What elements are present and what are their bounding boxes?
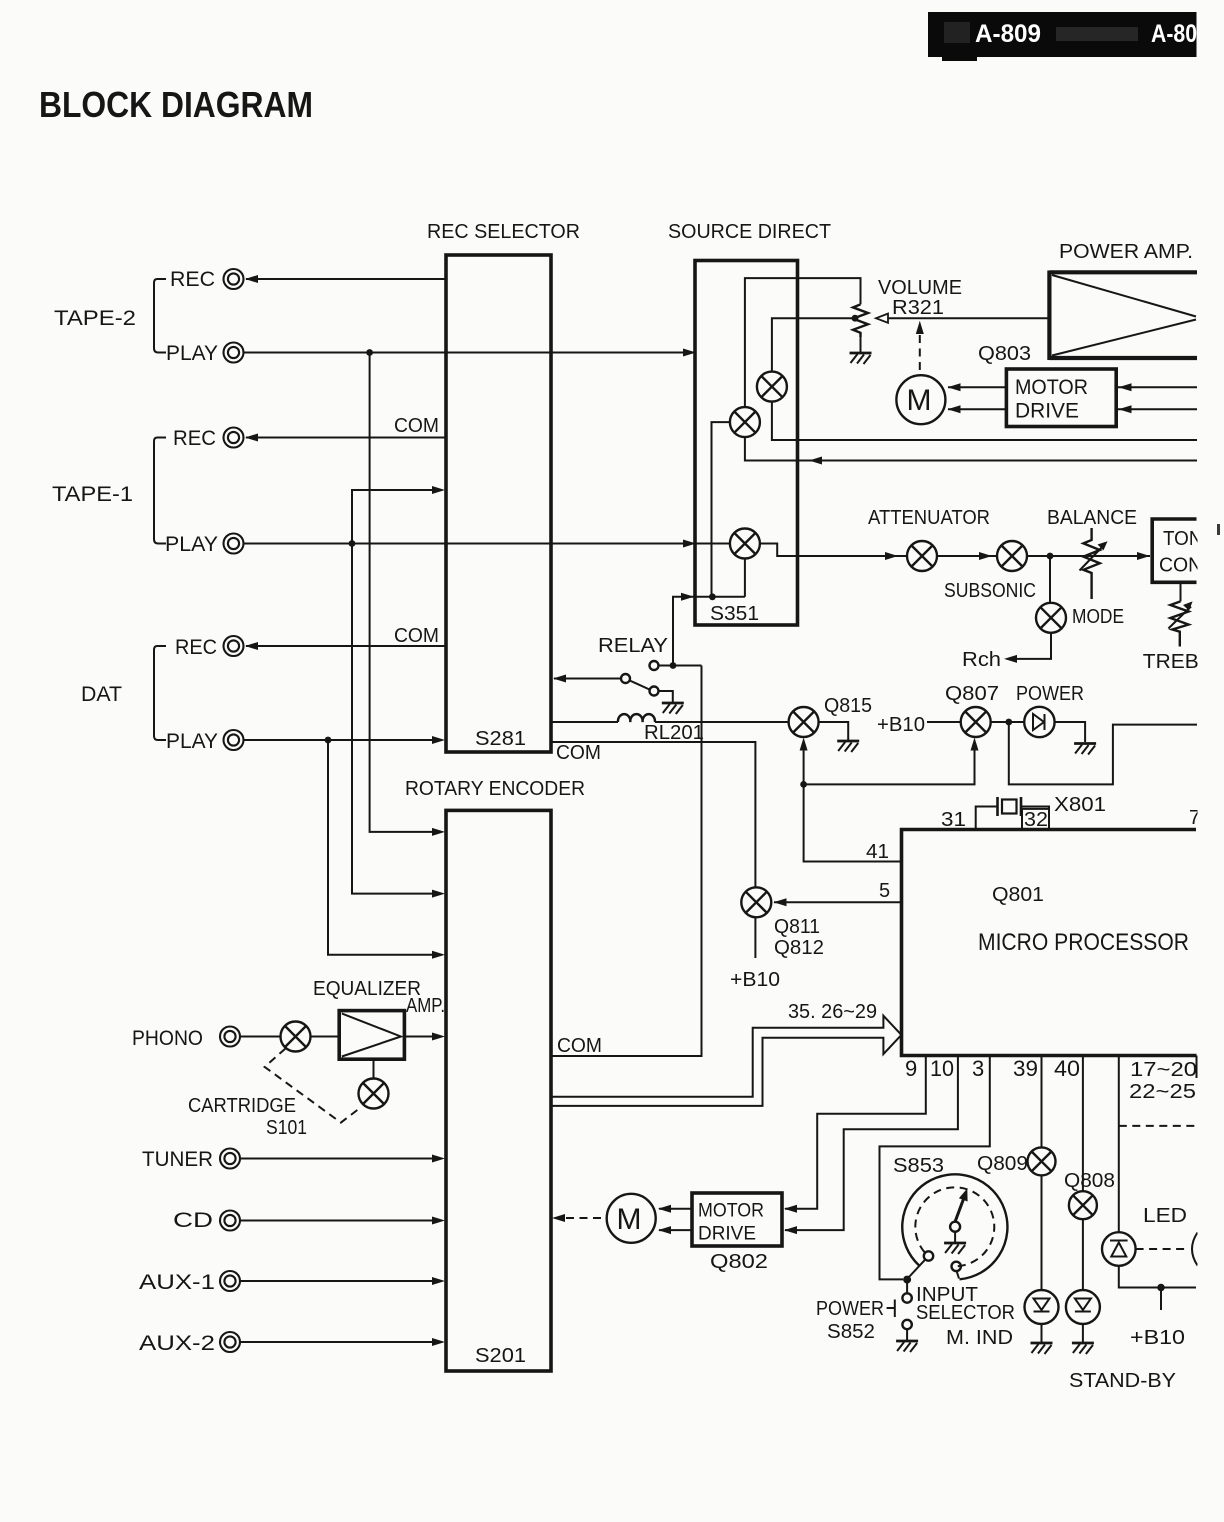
rotary switch S853 outer ring bbox=[902, 1174, 1007, 1279]
svg-text:MICRO PROCESSOR: MICRO PROCESSOR bbox=[978, 929, 1189, 956]
switch Q809 bbox=[1028, 1147, 1056, 1175]
svg-text:TAPE-1: TAPE-1 bbox=[52, 483, 133, 506]
push button S852 bbox=[887, 1300, 895, 1318]
relay contact middle bbox=[621, 674, 630, 683]
svg-text:Q802: Q802 bbox=[710, 1251, 768, 1273]
wires motor drive Q802 to motor bbox=[659, 1209, 692, 1230]
indicator diode (STAND-BY) bbox=[1066, 1290, 1100, 1324]
jack TAPE-2 REC bbox=[224, 269, 244, 289]
svg-text:TUNER: TUNER bbox=[142, 1148, 213, 1171]
svg-text:COM: COM bbox=[556, 742, 601, 764]
crystal X801 bbox=[976, 807, 997, 830]
ground (Q808 chain) bbox=[1072, 1343, 1094, 1354]
wire SD1 to long feed line bbox=[772, 402, 1197, 440]
switch S852 contact lower bbox=[902, 1320, 911, 1329]
potentiometer R321 bbox=[853, 304, 868, 337]
wire junction down to power switch bbox=[906, 1280, 908, 1294]
wire pin 3 staircase to selector junction bbox=[880, 1056, 990, 1280]
wire TAPE-2 REC bbox=[246, 278, 446, 280]
svg-text:COM: COM bbox=[394, 415, 439, 437]
wire DAT PLAY into S281 bbox=[244, 739, 432, 741]
arrowhead toward Rch bbox=[1004, 655, 1017, 663]
LED display diode bbox=[1102, 1232, 1136, 1266]
wire TUNER to S201 bbox=[241, 1158, 433, 1160]
scan speck right margin bbox=[1217, 524, 1220, 535]
svg-text:REC SELECTOR: REC SELECTOR bbox=[427, 221, 580, 243]
svg-text:S281: S281 bbox=[475, 728, 526, 750]
arrowhead before subsonic bbox=[979, 552, 992, 560]
wires into motor drive Q803 from right bbox=[1116, 387, 1197, 409]
switch S101a (phono) bbox=[281, 1022, 311, 1052]
ground (Q809 chain) bbox=[1031, 1343, 1053, 1354]
arrowhead into S351 (relay line) bbox=[681, 593, 694, 601]
svg-text:39: 39 bbox=[1013, 1056, 1038, 1081]
switch S852 contact upper bbox=[902, 1293, 911, 1302]
wire TAPE-1 PLAY branch up into S281 bbox=[352, 490, 432, 544]
svg-text:COM: COM bbox=[394, 625, 439, 647]
switch block S351 (SOURCE DIRECT) bbox=[695, 261, 798, 626]
wire pin 10 staircase to motor drive Q802 bbox=[785, 1056, 958, 1231]
svg-text:POWER: POWER bbox=[1016, 683, 1084, 705]
svg-text:REC: REC bbox=[170, 268, 215, 291]
svg-text:POWER AMP.: POWER AMP. bbox=[1059, 241, 1193, 263]
right margin mask bbox=[1198, 0, 1224, 1522]
svg-text:MOTOR: MOTOR bbox=[1015, 375, 1088, 399]
block MOTOR DRIVE Q802 bbox=[692, 1193, 782, 1246]
switch Q808 bbox=[1069, 1191, 1097, 1219]
wire S351 output 1 to R321 top bbox=[745, 278, 861, 407]
svg-text:EQUALIZER: EQUALIZER bbox=[313, 978, 421, 1000]
svg-text:R321: R321 bbox=[892, 297, 944, 319]
wire equalizer amp to S201 bbox=[404, 1036, 432, 1038]
ground (power LED) bbox=[1074, 744, 1096, 755]
jack CD bbox=[220, 1211, 240, 1231]
svg-text:BLOCK DIAGRAM: BLOCK DIAGRAM bbox=[39, 84, 313, 125]
svg-text:CD: CD bbox=[173, 1209, 213, 1232]
svg-text:17~20: 17~20 bbox=[1130, 1059, 1197, 1081]
svg-text:40: 40 bbox=[1054, 1056, 1080, 1081]
svg-text:+B10: +B10 bbox=[877, 714, 925, 736]
wire equalizer amp to S101 switch bbox=[373, 1059, 375, 1078]
ground (Q815) bbox=[837, 741, 859, 752]
wire control line to Q807 bbox=[804, 749, 975, 784]
arrowhead into S281 (DAT PLAY) bbox=[432, 736, 445, 744]
svg-text:RELAY: RELAY bbox=[598, 635, 668, 657]
switch Q807 bbox=[961, 707, 991, 737]
node TAPE-1 PLAY junction bbox=[349, 540, 356, 547]
relay blade bbox=[630, 681, 650, 690]
wire +B10 to Q807 bbox=[927, 721, 961, 723]
wire S351 output 2 to R321 wiper side bbox=[772, 318, 855, 371]
svg-text:BALANCE: BALANCE bbox=[1047, 507, 1137, 529]
switch SD2 (source direct middle) bbox=[730, 407, 760, 437]
svg-text:AUX-2: AUX-2 bbox=[139, 1332, 215, 1355]
ground (R321) bbox=[850, 353, 872, 364]
jack TAPE-1 REC bbox=[224, 428, 244, 448]
wire RL201 to Q815 bbox=[655, 721, 789, 723]
wire pin 39 chain bbox=[1041, 1056, 1043, 1343]
switch attenuator bbox=[907, 541, 937, 571]
svg-text:STAND-BY: STAND-BY bbox=[1069, 1370, 1176, 1392]
wire Q811 to +B10 stub bbox=[754, 918, 756, 959]
wire TAPE-1 PLAY to SOURCE DIRECT bbox=[244, 543, 694, 545]
svg-text:3: 3 bbox=[972, 1056, 984, 1081]
wire tone control to treble bbox=[1180, 582, 1182, 601]
wire DAT PLAY riser to S201 bbox=[328, 740, 432, 955]
rotor arrow S853 bbox=[955, 1199, 964, 1222]
svg-text:S852: S852 bbox=[827, 1321, 875, 1343]
jack DAT REC bbox=[224, 636, 244, 656]
amplifier EQUALIZER AMP bbox=[339, 1011, 404, 1060]
svg-text:AUX-1: AUX-1 bbox=[139, 1271, 215, 1294]
wire into SD3 from left bbox=[695, 543, 730, 545]
svg-text:DRIVE: DRIVE bbox=[698, 1224, 756, 1245]
svg-text:M: M bbox=[617, 1203, 642, 1236]
svg-text:M: M bbox=[907, 384, 932, 417]
arrowhead into S201 (TAPE-2) bbox=[432, 828, 445, 836]
svg-text:VOLUME: VOLUME bbox=[878, 277, 962, 299]
ground (relay) bbox=[662, 703, 684, 714]
model number bar A-809 bbox=[928, 12, 1197, 57]
node balance junction bbox=[1047, 553, 1054, 560]
svg-text:REC: REC bbox=[173, 427, 216, 450]
jack TAPE-1 PLAY bbox=[224, 534, 244, 554]
svg-text:POWER: POWER bbox=[816, 1298, 884, 1320]
svg-text:Q801: Q801 bbox=[992, 884, 1044, 906]
wire R321 bottom to ground bbox=[860, 337, 862, 352]
wire subsonic to tone control bbox=[1027, 555, 1150, 557]
arrowhead into S201 (TAPE-1) bbox=[432, 890, 445, 898]
display arc bbox=[1192, 1233, 1198, 1266]
wire relay lower contact to ground bbox=[659, 691, 673, 702]
arrowhead into tone control box bbox=[1137, 552, 1150, 560]
block TONE CONT bbox=[1152, 519, 1196, 582]
svg-text:Q808: Q808 bbox=[1064, 1170, 1115, 1192]
svg-text:CARTRIDGE: CARTRIDGE bbox=[188, 1095, 296, 1117]
dashed link motor to R321 bbox=[916, 321, 924, 334]
svg-text:S351: S351 bbox=[710, 603, 759, 625]
wire relay middle contact into S281 bbox=[554, 678, 621, 680]
relay contact lower bbox=[650, 687, 659, 696]
wire Q807 to power LED bbox=[991, 721, 1024, 723]
arrowhead at TAPE-1 REC jack bbox=[245, 434, 258, 442]
svg-text:22~25: 22~25 bbox=[1129, 1081, 1196, 1103]
svg-text:S201: S201 bbox=[475, 1345, 526, 1367]
wire pins 17~20 22~25 chain bbox=[1119, 1056, 1196, 1288]
dashed link CARTRIDGE S101 bbox=[265, 1049, 361, 1123]
svg-text:A-809: A-809 bbox=[975, 20, 1041, 48]
wire SD3 bottom to relay junction bbox=[744, 559, 746, 597]
wire pin 9 staircase to motor drive Q802 bbox=[785, 1056, 926, 1209]
block MOTOR DRIVE Q803 bbox=[1006, 369, 1116, 427]
switch S101b bbox=[359, 1079, 389, 1109]
switch Q811 Q812 bbox=[741, 887, 771, 917]
node relay junction bbox=[670, 662, 677, 669]
rotary switch S853 inner dashed ring bbox=[915, 1187, 994, 1266]
bracket DAT bbox=[154, 646, 166, 740]
switch SD1 (source direct upper) bbox=[757, 372, 787, 402]
selector blade S853 bbox=[909, 1260, 926, 1278]
arrowhead at DAT REC jack bbox=[245, 642, 258, 650]
wire control into Q815 from below bbox=[803, 749, 805, 784]
svg-text:SOURCE DIRECT: SOURCE DIRECT bbox=[668, 221, 831, 243]
svg-text:PHONO: PHONO bbox=[132, 1027, 203, 1050]
motor M (volume) bbox=[896, 375, 945, 424]
jack TUNER bbox=[220, 1149, 240, 1169]
microprocessor Q801 box bbox=[902, 830, 1197, 1056]
svg-text:Q815: Q815 bbox=[824, 695, 872, 717]
svg-text:Rch: Rch bbox=[962, 649, 1001, 671]
bracket TAPE-1 bbox=[154, 438, 166, 544]
contact S853 left bbox=[924, 1251, 933, 1260]
svg-text:SELECTOR: SELECTOR bbox=[916, 1302, 1015, 1324]
coil RL201 bbox=[551, 721, 618, 723]
contact S853 lower right bbox=[952, 1262, 961, 1271]
wire balance junction down to mode bbox=[1049, 556, 1051, 603]
wire R321 wiper to power amp bbox=[888, 317, 1049, 319]
wire relay upper contact to node bbox=[659, 665, 702, 667]
svg-text:DAT: DAT bbox=[81, 683, 122, 706]
svg-text:5: 5 bbox=[879, 880, 890, 902]
svg-text:10: 10 bbox=[930, 1056, 954, 1081]
svg-text:X801: X801 bbox=[1054, 794, 1106, 816]
LED power indicator bbox=[1024, 707, 1054, 737]
wire SD2 left link bbox=[712, 422, 730, 597]
svg-text:PLAY: PLAY bbox=[165, 533, 218, 556]
svg-text:Q812: Q812 bbox=[774, 937, 824, 959]
svg-text:PLAY: PLAY bbox=[166, 342, 218, 365]
switch MODE bbox=[1036, 603, 1066, 633]
bus arrow S201 to microprocessor pins 35,26~29 bbox=[551, 1016, 901, 1106]
indicator diode (M.IND) bbox=[1025, 1290, 1059, 1324]
wire AUX-2 to S201 bbox=[241, 1341, 433, 1343]
wire TAPE-1 REC COM bbox=[246, 437, 446, 439]
arrowhead into S351 left edge (TAPE-2 PLAY) bbox=[683, 349, 696, 357]
svg-text:+B10: +B10 bbox=[730, 969, 780, 991]
svg-text:LED: LED bbox=[1143, 1205, 1187, 1227]
amplifier POWER AMP bbox=[1049, 271, 1197, 361]
svg-text:MODE: MODE bbox=[1072, 606, 1124, 628]
arrowhead into S281 right edge (relay) bbox=[553, 675, 566, 683]
relay contact upper bbox=[650, 661, 659, 670]
wire DAT REC COM bbox=[246, 645, 446, 647]
pin box 32 bbox=[1022, 809, 1049, 829]
svg-text:Q811: Q811 bbox=[774, 916, 820, 938]
wire +B10 stub bbox=[1160, 1288, 1162, 1311]
switch SD3 (source direct lower) bbox=[730, 529, 760, 559]
node control line junction bbox=[800, 781, 807, 788]
svg-text:RL201: RL201 bbox=[644, 722, 704, 744]
svg-text:REC: REC bbox=[175, 636, 217, 659]
wire +B10 feed to right edge bbox=[1009, 722, 1197, 784]
wire PHONO to switch bbox=[241, 1036, 281, 1038]
svg-text:COM: COM bbox=[557, 1035, 602, 1057]
ground (S853 rotor) bbox=[944, 1243, 966, 1254]
svg-text:ROTARY ENCODER: ROTARY ENCODER bbox=[405, 778, 585, 800]
arrowhead into S281 (y=490) bbox=[432, 486, 445, 494]
arrowhead before attenuator bbox=[885, 552, 898, 560]
wire SD2 to long return line bbox=[745, 437, 1197, 460]
svg-text:Q807: Q807 bbox=[945, 683, 999, 705]
arrowhead into S201 (DAT) bbox=[432, 951, 445, 959]
wire relay node down to S201 COM bbox=[551, 666, 702, 1057]
switch Q815 bbox=[789, 707, 819, 737]
node +B10 junction bbox=[1157, 1284, 1165, 1292]
svg-text:TAPE-2: TAPE-2 bbox=[54, 307, 136, 330]
svg-text:41: 41 bbox=[866, 841, 889, 863]
jack PHONO bbox=[220, 1027, 240, 1047]
wire S852 to ground bbox=[906, 1329, 908, 1340]
wire right contact stub bbox=[957, 1271, 959, 1278]
dashed link LED to display bbox=[1136, 1248, 1185, 1250]
wire control line down to pin 41 bbox=[804, 784, 902, 861]
svg-text:AMP.: AMP. bbox=[406, 995, 445, 1017]
wiper arrow R321 (open triangle) bbox=[876, 314, 888, 323]
motor M (input selector) bbox=[607, 1194, 656, 1243]
switch block S281 (REC SELECTOR) bbox=[446, 255, 551, 752]
wire AUX-1 to S201 bbox=[241, 1280, 433, 1282]
svg-text:A-80: A-80 bbox=[1151, 20, 1197, 48]
jack TAPE-2 PLAY bbox=[224, 343, 244, 363]
svg-text:SUBSONIC: SUBSONIC bbox=[944, 580, 1036, 602]
svg-text:+B10: +B10 bbox=[1130, 1327, 1185, 1349]
node TAPE-2 PLAY junction bbox=[366, 349, 373, 356]
wires motor drive Q803 to motor bbox=[948, 387, 1006, 409]
svg-text:ATTENUATOR: ATTENUATOR bbox=[868, 507, 990, 529]
node selector junction bbox=[903, 1276, 911, 1284]
svg-text:PLAY: PLAY bbox=[166, 730, 218, 753]
node DAT PLAY junction bbox=[325, 737, 332, 744]
wire pin 5 to Q811 bbox=[774, 901, 902, 903]
svg-text:9: 9 bbox=[905, 1056, 917, 1081]
node S351 internal junction bbox=[709, 593, 716, 600]
svg-text:Q803: Q803 bbox=[978, 343, 1031, 365]
wire switch to equalizer amp bbox=[311, 1036, 340, 1038]
arrowhead into S351 left edge (TAPE-1 PLAY) bbox=[683, 540, 696, 548]
bracket TAPE-2 bbox=[154, 279, 166, 353]
wire pivot to ground bbox=[954, 1232, 956, 1242]
potentiometer TREBLE bbox=[1170, 601, 1188, 646]
node R321 left bbox=[852, 315, 859, 322]
dashed link S201 to motor bbox=[552, 1214, 565, 1222]
jack DAT PLAY bbox=[224, 730, 244, 750]
encoder block S201 bbox=[446, 810, 551, 1371]
wire TAPE-2 PLAY riser to S201 bbox=[370, 353, 432, 832]
jack AUX-2 bbox=[220, 1332, 240, 1352]
ground (S852) bbox=[896, 1341, 918, 1352]
arrowhead on return line (pointing left) bbox=[809, 457, 822, 465]
node Q807/LED junction bbox=[1005, 719, 1012, 726]
switch subsonic bbox=[997, 541, 1027, 571]
svg-text:MOTOR: MOTOR bbox=[698, 1201, 764, 1222]
wire Q815 to ground bbox=[819, 722, 848, 740]
svg-text:S101: S101 bbox=[266, 1117, 307, 1139]
wire power LED to ground bbox=[1055, 722, 1086, 742]
jack AUX-1 bbox=[220, 1271, 240, 1291]
svg-text:35. 26~29: 35. 26~29 bbox=[788, 1001, 877, 1023]
wire CD to S201 bbox=[241, 1220, 433, 1222]
wire mode to Rch bbox=[1017, 633, 1051, 659]
svg-text:TREB: TREB bbox=[1143, 651, 1199, 673]
wire SD3 to attenuator bbox=[760, 544, 907, 557]
potentiometer BALANCE bbox=[1083, 528, 1099, 599]
svg-text:S853: S853 bbox=[893, 1155, 944, 1177]
wire attenuator to subsonic bbox=[937, 555, 997, 557]
svg-text:M. IND: M. IND bbox=[946, 1327, 1013, 1349]
svg-text:Q809: Q809 bbox=[977, 1153, 1028, 1175]
svg-text:DRIVE: DRIVE bbox=[1015, 399, 1079, 423]
arrowhead at TAPE-2 REC jack bbox=[245, 275, 258, 283]
wire S281 COM to Q811 chain bbox=[551, 742, 755, 887]
wire TAPE-1 PLAY riser down to S201 bbox=[352, 544, 432, 894]
wire relay node up into S351 bbox=[673, 597, 745, 666]
dashed branch to display bbox=[1119, 1125, 1196, 1127]
wire pin 40 chain bbox=[1082, 1056, 1084, 1343]
wire TAPE-2 PLAY to SOURCE DIRECT bbox=[244, 352, 694, 354]
rotor pivot S853 bbox=[950, 1222, 960, 1232]
